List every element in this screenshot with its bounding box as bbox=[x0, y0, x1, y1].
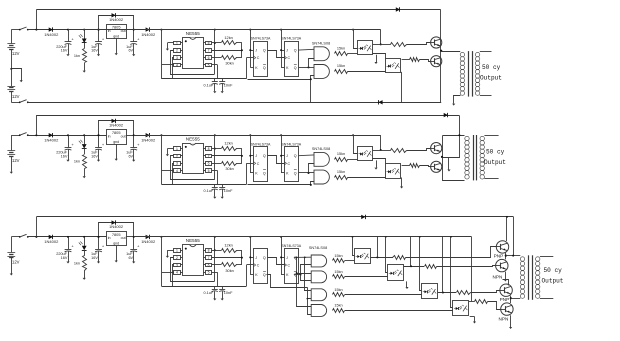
svg-text:J: J bbox=[286, 256, 288, 260]
svg-text:6V: 6V bbox=[128, 256, 133, 260]
svg-text:1N4002: 1N4002 bbox=[44, 137, 59, 142]
svg-text:3: 3 bbox=[176, 56, 178, 60]
svg-text:Q: Q bbox=[263, 256, 266, 260]
svg-text:4: 4 bbox=[176, 169, 178, 173]
svg-text:2: 2 bbox=[176, 256, 178, 260]
svg-text:0.1uF: 0.1uF bbox=[203, 84, 213, 88]
svg-text:50 cy: 50 cy bbox=[544, 267, 563, 274]
svg-text:Q: Q bbox=[294, 154, 297, 158]
svg-text:50 cy: 50 cy bbox=[482, 64, 501, 71]
svg-text:NE555: NE555 bbox=[186, 137, 200, 142]
svg-text:out: out bbox=[121, 236, 126, 240]
svg-text:1: 1 bbox=[176, 147, 178, 151]
svg-text:J: J bbox=[255, 154, 257, 158]
svg-text:gnd: gnd bbox=[113, 34, 119, 38]
svg-text:Output: Output bbox=[542, 277, 564, 284]
svg-text:NPN: NPN bbox=[492, 274, 502, 279]
svg-text:3: 3 bbox=[176, 162, 178, 166]
svg-text:2: 2 bbox=[176, 154, 178, 158]
svg-text:50 cy: 50 cy bbox=[486, 149, 505, 156]
svg-text:4: 4 bbox=[176, 63, 178, 67]
svg-text:12kn: 12kn bbox=[224, 141, 232, 146]
svg-text:10nF: 10nF bbox=[224, 84, 233, 88]
svg-text:Q: Q bbox=[263, 273, 266, 277]
svg-text:C: C bbox=[257, 56, 260, 60]
svg-text:16V: 16V bbox=[91, 49, 98, 53]
svg-text:15kn: 15kn bbox=[334, 303, 342, 307]
svg-text:15kn: 15kn bbox=[337, 64, 345, 68]
svg-text:1N4002: 1N4002 bbox=[141, 239, 156, 244]
svg-text:1N4002: 1N4002 bbox=[109, 224, 124, 229]
svg-text:Q: Q bbox=[294, 49, 297, 53]
svg-text:16V: 16V bbox=[61, 154, 68, 158]
svg-text:6: 6 bbox=[208, 162, 210, 166]
svg-text:1N4002: 1N4002 bbox=[141, 137, 156, 142]
svg-text:15kn: 15kn bbox=[337, 170, 345, 174]
svg-text:6: 6 bbox=[208, 56, 210, 60]
svg-text:2: 2 bbox=[176, 49, 178, 53]
svg-text:J: J bbox=[286, 49, 288, 53]
svg-text:1kn: 1kn bbox=[74, 261, 80, 265]
svg-text:5: 5 bbox=[208, 169, 210, 173]
svg-text:Q: Q bbox=[263, 66, 266, 70]
svg-text:6: 6 bbox=[208, 263, 210, 267]
svg-text:7: 7 bbox=[208, 154, 210, 158]
svg-text:Q: Q bbox=[263, 154, 266, 158]
svg-text:15kn: 15kn bbox=[334, 288, 342, 292]
svg-text:J: J bbox=[255, 49, 257, 53]
svg-text:7: 7 bbox=[208, 256, 210, 260]
svg-text:15kn: 15kn bbox=[337, 152, 345, 156]
svg-text:1N4002: 1N4002 bbox=[44, 239, 59, 244]
svg-text:C: C bbox=[288, 56, 291, 60]
svg-text:NE555: NE555 bbox=[186, 31, 200, 36]
svg-text:1: 1 bbox=[176, 249, 178, 253]
svg-text:7805: 7805 bbox=[112, 25, 121, 30]
svg-text:12V: 12V bbox=[12, 94, 20, 99]
svg-text:Q: Q bbox=[263, 49, 266, 53]
svg-text:NE555: NE555 bbox=[186, 238, 200, 243]
svg-text:NPN: NPN bbox=[499, 316, 509, 321]
svg-text:Output: Output bbox=[480, 74, 502, 81]
svg-text:30kn: 30kn bbox=[225, 61, 233, 66]
svg-text:J: J bbox=[255, 256, 257, 260]
svg-text:1N4002: 1N4002 bbox=[44, 32, 59, 37]
svg-text:J: J bbox=[286, 154, 288, 158]
svg-text:gnd: gnd bbox=[113, 140, 119, 144]
svg-text:1: 1 bbox=[176, 41, 178, 45]
svg-text:1N4002: 1N4002 bbox=[109, 17, 124, 22]
svg-text:10nF: 10nF bbox=[224, 189, 233, 193]
svg-text:SN74LS08: SN74LS08 bbox=[312, 42, 330, 46]
svg-text:15kn: 15kn bbox=[337, 47, 345, 51]
svg-text:Q: Q bbox=[263, 172, 266, 176]
svg-text:SN74LS73A: SN74LS73A bbox=[251, 37, 271, 41]
svg-text:5: 5 bbox=[208, 63, 210, 67]
svg-text:16V: 16V bbox=[61, 256, 68, 260]
svg-text:SN74LS73A: SN74LS73A bbox=[251, 142, 271, 146]
svg-text:6V: 6V bbox=[128, 154, 133, 158]
svg-text:C: C bbox=[257, 162, 260, 166]
svg-text:C: C bbox=[288, 162, 291, 166]
svg-text:7805: 7805 bbox=[112, 130, 121, 135]
svg-text:in: in bbox=[108, 134, 111, 138]
svg-text:Output: Output bbox=[484, 159, 506, 166]
svg-text:1N4002: 1N4002 bbox=[109, 123, 124, 128]
svg-text:15kn: 15kn bbox=[334, 270, 342, 274]
svg-text:Q: Q bbox=[294, 172, 297, 176]
svg-text:30kn: 30kn bbox=[225, 268, 233, 273]
svg-text:15kn: 15kn bbox=[334, 254, 342, 258]
svg-text:1kn: 1kn bbox=[74, 160, 80, 164]
svg-text:12V: 12V bbox=[12, 260, 20, 265]
svg-text:8: 8 bbox=[208, 249, 210, 253]
svg-text:in: in bbox=[108, 236, 111, 240]
svg-text:30kn: 30kn bbox=[225, 166, 233, 171]
svg-text:3: 3 bbox=[176, 263, 178, 267]
svg-text:8: 8 bbox=[208, 41, 210, 45]
svg-text:1N4002: 1N4002 bbox=[141, 32, 156, 37]
svg-text:5: 5 bbox=[208, 271, 210, 275]
svg-text:0.1uF: 0.1uF bbox=[203, 189, 213, 193]
svg-text:7: 7 bbox=[208, 49, 210, 53]
svg-text:6V: 6V bbox=[128, 49, 133, 53]
svg-text:PNP: PNP bbox=[500, 297, 510, 302]
svg-text:12kn: 12kn bbox=[224, 35, 232, 40]
svg-text:12V: 12V bbox=[12, 158, 20, 163]
svg-text:SN74LS08: SN74LS08 bbox=[309, 246, 327, 250]
svg-text:16V: 16V bbox=[91, 154, 98, 158]
svg-text:0.1uF: 0.1uF bbox=[203, 291, 213, 295]
svg-text:10nF: 10nF bbox=[224, 291, 233, 295]
svg-text:out: out bbox=[121, 134, 126, 138]
svg-text:12kn: 12kn bbox=[224, 242, 232, 247]
svg-text:16V: 16V bbox=[61, 49, 68, 53]
svg-text:8: 8 bbox=[208, 147, 210, 151]
svg-text:Q: Q bbox=[294, 66, 297, 70]
svg-text:12V: 12V bbox=[12, 51, 20, 56]
svg-text:SN74LS73A: SN74LS73A bbox=[281, 142, 301, 146]
svg-text:1kn: 1kn bbox=[74, 54, 80, 58]
svg-text:PNP: PNP bbox=[494, 253, 504, 258]
svg-text:gnd: gnd bbox=[113, 242, 119, 246]
svg-text:7805: 7805 bbox=[112, 232, 121, 237]
svg-text:4: 4 bbox=[176, 271, 178, 275]
svg-text:16V: 16V bbox=[91, 256, 98, 260]
svg-text:SN74LS08: SN74LS08 bbox=[312, 147, 330, 151]
svg-text:SN74LS73A: SN74LS73A bbox=[281, 37, 301, 41]
svg-text:C: C bbox=[257, 264, 260, 268]
svg-text:SN74LS73A: SN74LS73A bbox=[281, 244, 301, 248]
svg-text:C: C bbox=[288, 264, 291, 268]
